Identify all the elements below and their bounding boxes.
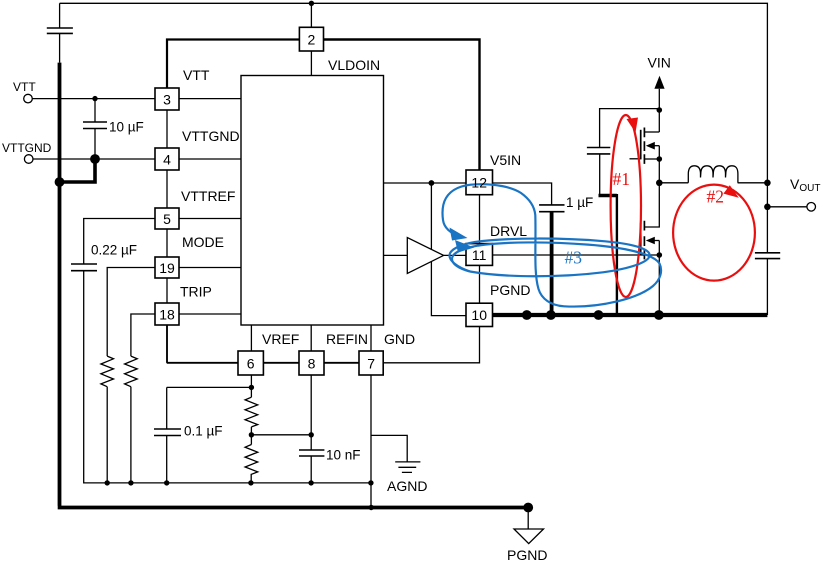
svg-text:10 µF: 10 µF <box>109 120 144 135</box>
svg-text:19: 19 <box>159 260 175 276</box>
svg-text:MODE: MODE <box>182 234 224 250</box>
svg-text:AGND: AGND <box>387 478 427 494</box>
svg-text:VOUT: VOUT <box>790 176 820 194</box>
svg-text:11: 11 <box>472 247 487 263</box>
svg-text:REFIN: REFIN <box>326 331 368 347</box>
svg-text:4: 4 <box>163 152 171 168</box>
svg-text:7: 7 <box>367 356 375 372</box>
svg-text:18: 18 <box>159 307 175 323</box>
svg-text:VTTGND: VTTGND <box>182 128 240 144</box>
svg-text:3: 3 <box>163 92 171 108</box>
svg-text:#3: #3 <box>565 248 583 268</box>
svg-text:TRIP: TRIP <box>180 284 212 300</box>
svg-text:#1: #1 <box>613 169 631 189</box>
svg-text:5: 5 <box>163 211 171 227</box>
svg-text:PGND: PGND <box>507 547 547 563</box>
svg-text:8: 8 <box>308 356 316 372</box>
svg-text:VTTREF: VTTREF <box>181 188 235 204</box>
svg-text:10 nF: 10 nF <box>326 448 361 463</box>
svg-text:VTTGND: VTTGND <box>2 141 52 155</box>
svg-text:VTT: VTT <box>13 80 36 94</box>
svg-text:0.1 µF: 0.1 µF <box>184 424 223 439</box>
svg-text:#2: #2 <box>707 187 725 207</box>
svg-text:GND: GND <box>384 331 415 347</box>
svg-text:10: 10 <box>471 307 487 323</box>
svg-text:PGND: PGND <box>490 282 530 298</box>
svg-text:VREF: VREF <box>262 331 299 347</box>
svg-text:VLDOIN: VLDOIN <box>328 57 380 73</box>
svg-text:6: 6 <box>247 356 255 372</box>
svg-text:DRVL: DRVL <box>490 223 527 239</box>
svg-text:2: 2 <box>308 32 316 48</box>
svg-text:V5IN: V5IN <box>490 152 521 168</box>
svg-text:12: 12 <box>471 175 487 191</box>
svg-text:0.22 µF: 0.22 µF <box>91 243 137 258</box>
svg-text:1 µF: 1 µF <box>566 195 593 210</box>
svg-text:VTT: VTT <box>183 67 210 83</box>
svg-text:VIN: VIN <box>648 55 671 71</box>
